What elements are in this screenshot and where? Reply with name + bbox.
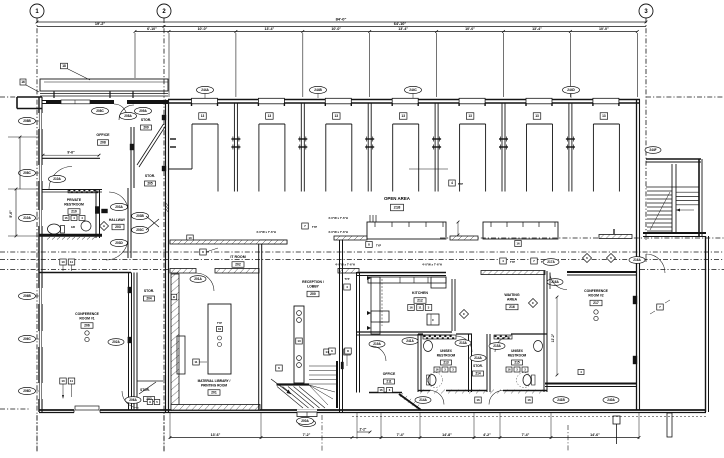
restroom 214-215 wall	[486, 334, 488, 392]
conference rm2 south wall	[545, 383, 636, 385]
left upper dim	[19, 137, 21, 189]
material rm west wall hatched	[171, 274, 179, 410]
svg-text:4'-0"W x 7'-6"H: 4'-0"W x 7'-6"H	[328, 216, 348, 220]
svg-text:244D: 244D	[567, 88, 575, 92]
svg-text:14'-6": 14'-6"	[590, 433, 600, 437]
window tag 244D	[563, 86, 580, 93]
restroom 215 east wall	[543, 271, 545, 392]
hallway north wall stub	[102, 209, 108, 213]
stair enclosure north wall	[646, 158, 701, 160]
svg-text:16: 16	[21, 80, 25, 84]
svg-text:RESTROOM: RESTROOM	[508, 354, 527, 358]
svg-text:13: 13	[201, 114, 205, 118]
match line A upper-right	[646, 96, 724, 98]
cubicle tags 13	[199, 113, 207, 120]
svg-text:ROOM #2: ROOM #2	[588, 294, 603, 298]
canopy roof outline	[40, 79, 168, 91]
door tag 210A oval	[49, 175, 66, 182]
hallway door diamond	[99, 221, 108, 230]
svg-text:217A: 217A	[547, 260, 555, 264]
svg-text:241B: 241B	[557, 398, 565, 402]
restroom 213 tags	[434, 367, 440, 372]
open area leader tag 4	[409, 168, 448, 170]
svg-text:18: 18	[62, 64, 66, 68]
svg-text:7'-4": 7'-4"	[522, 433, 530, 437]
match line D	[0, 259, 724, 261]
svg-text:TYP: TYP	[458, 182, 463, 186]
material rm tag 11	[193, 359, 200, 365]
svg-text:B: B	[173, 295, 175, 299]
reception west wall	[258, 241, 260, 410]
conference rm2 east jambs	[633, 296, 637, 304]
grid line 1	[36, 18, 38, 452]
waiting oval tag	[547, 279, 563, 286]
office 211 door arc	[371, 346, 386, 361]
svg-text:213: 213	[443, 361, 449, 365]
svg-text:10: 10	[188, 236, 192, 240]
svg-text:4'-0"W x 7'-6"H: 4'-0"W x 7'-6"H	[328, 230, 348, 234]
window tag 244A	[197, 86, 214, 93]
svg-text:216A: 216A	[633, 258, 641, 262]
conference rm2 interior dim	[556, 297, 558, 375]
match line B right	[440, 237, 724, 239]
svg-text:205: 205	[147, 182, 153, 186]
conference rm1 ceiling symbols	[85, 331, 89, 335]
material rm island table	[208, 304, 231, 374]
cubicle U partitions	[192, 123, 218, 125]
stair door tag	[299, 419, 316, 426]
conference rm1 east wall	[128, 273, 130, 411]
left vertical dimension line	[15, 189, 17, 236]
svg-text:13: 13	[268, 114, 272, 118]
restroom south walls	[369, 392, 402, 394]
restroom door arc	[49, 167, 72, 190]
svg-text:203: 203	[115, 225, 121, 229]
stor 205 ladder diagonal	[137, 124, 164, 165]
kitchen appliance	[427, 314, 439, 325]
svg-text:KITCHEN: KITCHEN	[412, 291, 428, 295]
corridor table 1	[367, 222, 446, 239]
svg-text:203D: 203D	[115, 241, 123, 245]
lower corridor oval 216A	[629, 257, 645, 264]
svg-text:CONFERENCE: CONFERENCE	[584, 289, 608, 293]
match line E left	[0, 269, 168, 271]
bottom grid dash 2	[163, 415, 165, 452]
svg-text:10: 10	[61, 260, 65, 264]
conference rm1 north wall	[39, 272, 131, 274]
svg-text:209: 209	[143, 126, 149, 130]
material rm side counter	[177, 336, 185, 374]
west wall power pole	[170, 138, 176, 140]
kitchen-waiting divider	[451, 279, 453, 331]
south exterior wall	[39, 409, 706, 411]
svg-text:GFI: GFI	[71, 225, 76, 229]
svg-text:HALLWAY: HALLWAY	[109, 218, 126, 222]
svg-text:PRIVATE: PRIVATE	[67, 198, 82, 202]
annex door arc	[646, 254, 665, 273]
bottom dimension string	[170, 437, 639, 439]
restroom 213 west wall	[417, 334, 419, 392]
svg-text:MATERIAL LIBRARY /: MATERIAL LIBRARY /	[198, 379, 231, 383]
office-stor partition wall	[130, 127, 132, 188]
corridor table 2	[483, 222, 558, 239]
svg-text:13: 13	[335, 114, 339, 118]
west oval leaders	[35, 120, 39, 122]
svg-text:16: 16	[507, 368, 511, 372]
central west wall of open area	[165, 100, 167, 413]
svg-text:208A: 208A	[124, 114, 132, 118]
svg-text:OFFICE: OFFICE	[96, 133, 110, 137]
svg-text:16: 16	[218, 327, 222, 331]
svg-text:5'-6": 5'-6"	[9, 210, 13, 218]
svg-text:203B: 203B	[136, 214, 144, 218]
svg-text:241A: 241A	[406, 339, 414, 343]
svg-text:209A: 209A	[139, 109, 147, 113]
svg-text:16: 16	[527, 398, 531, 402]
svg-text:214A: 214A	[474, 356, 482, 360]
interior stair arrow	[271, 379, 291, 394]
annex downspout 2	[667, 413, 672, 437]
office 211 door tag	[369, 341, 385, 348]
svg-text:240A: 240A	[607, 398, 615, 402]
svg-text:208B: 208B	[23, 119, 31, 123]
svg-text:12'-2": 12'-2"	[551, 333, 555, 342]
stair landing	[646, 186, 699, 188]
svg-text:64'-10": 64'-10"	[394, 22, 407, 26]
svg-text:11: 11	[418, 306, 422, 310]
east exterior wall	[636, 100, 638, 411]
stair stringer	[671, 164, 673, 232]
interior stair fan	[309, 385, 335, 392]
restroom south wall	[39, 234, 102, 237]
svg-text:STOR.: STOR.	[144, 289, 154, 293]
svg-text:201: 201	[211, 391, 217, 395]
svg-text:LOBBY: LOBBY	[307, 285, 320, 289]
lower corridor tag 7 typ	[531, 258, 538, 264]
svg-text:203A: 203A	[115, 205, 123, 209]
interior stair upper treads	[309, 365, 337, 367]
conference rm2 door arc	[550, 273, 567, 290]
svg-text:TYP: TYP	[312, 225, 317, 229]
restroom door arcs	[430, 391, 444, 405]
svg-text:RECEPTION /: RECEPTION /	[302, 280, 324, 284]
annex tag 7	[657, 304, 664, 310]
svg-text:206C: 206C	[23, 337, 31, 341]
grid line 2	[163, 18, 165, 452]
restroom fixture tags	[63, 216, 69, 221]
svg-text:OFFICE: OFFICE	[383, 372, 396, 376]
svg-text:211: 211	[386, 380, 391, 384]
left edge tag	[20, 79, 26, 85]
svg-text:16: 16	[409, 306, 413, 310]
svg-text:13: 13	[297, 339, 301, 343]
svg-text:214A: 214A	[419, 398, 427, 402]
conference rm2 tag	[578, 370, 584, 375]
kitchen south counter	[357, 331, 452, 333]
svg-text:244B: 244B	[314, 88, 322, 92]
hallway door arc south	[106, 238, 128, 260]
it room north wall	[170, 240, 259, 242]
partition power poles	[231, 138, 240, 140]
svg-text:217: 217	[593, 301, 599, 305]
svg-text:4: 4	[451, 181, 453, 185]
svg-text:IT ROOM: IT ROOM	[230, 255, 245, 259]
interior stair winder treads	[277, 387, 303, 409]
svg-text:13: 13	[401, 114, 405, 118]
west wall windows	[38, 113, 43, 129]
svg-text:13'-4": 13'-4"	[532, 27, 542, 31]
hallway east wall	[127, 188, 129, 258]
south corridor tags	[415, 397, 431, 404]
svg-text:206B: 206B	[23, 294, 31, 298]
svg-text:16: 16	[435, 368, 439, 372]
canopy tag 18 with leader	[61, 63, 68, 69]
it room tag 8	[200, 249, 207, 255]
svg-text:13: 13	[535, 114, 539, 118]
svg-text:204: 204	[146, 297, 152, 301]
stor 202 door tag	[108, 339, 124, 346]
svg-text:TYP: TYP	[344, 277, 349, 281]
annex east wall	[705, 236, 707, 412]
stair door tag 244F	[645, 147, 661, 154]
stair upper wall	[277, 383, 310, 385]
south door threshold	[297, 409, 317, 417]
material rm tag B	[171, 294, 177, 300]
material rm south wall hatched	[171, 405, 260, 411]
north wall of open area	[168, 99, 640, 101]
stair diagonal	[650, 192, 670, 230]
svg-text:C: C	[432, 318, 434, 322]
svg-text:TYP: TYP	[217, 321, 222, 325]
svg-text:11: 11	[70, 379, 74, 383]
reception east wall	[339, 236, 341, 412]
svg-text:10'-0": 10'-0"	[599, 27, 609, 31]
reception tags	[324, 349, 331, 355]
svg-text:10'-0": 10'-0"	[331, 27, 341, 31]
svg-text:TYP: TYP	[510, 260, 515, 264]
grid line 3	[645, 18, 647, 240]
svg-text:STOR.: STOR.	[145, 174, 155, 178]
svg-text:4'-0"W x 7'-6"H: 4'-0"W x 7'-6"H	[256, 230, 276, 234]
match line A upper-left	[0, 96, 18, 98]
svg-text:10: 10	[61, 379, 65, 383]
conference rm2 ceiling symbols	[594, 310, 598, 314]
match line E right	[640, 269, 724, 271]
restroom 213-214 wall	[468, 334, 470, 392]
svg-text:4'-2": 4'-2"	[483, 433, 491, 437]
svg-text:RESTROOM: RESTROOM	[437, 354, 456, 358]
svg-text:2'-2": 2'-2"	[360, 428, 367, 432]
svg-text:UNISEX: UNISEX	[440, 349, 453, 353]
svg-text:215: 215	[514, 361, 520, 365]
corridor counter west hatched	[170, 240, 287, 244]
restroom 213 lav	[424, 341, 433, 352]
svg-text:14'-8": 14'-8"	[442, 433, 452, 437]
material rm door arc	[196, 273, 214, 291]
storefront window	[61, 100, 90, 104]
svg-text:218: 218	[394, 205, 401, 210]
svg-text:STOR.: STOR.	[140, 388, 150, 392]
stor 202 divider and door	[137, 380, 166, 382]
match line F bottom-left	[0, 408, 30, 410]
svg-text:200: 200	[310, 292, 316, 296]
stor door arc	[119, 105, 134, 120]
reception desk symbols	[297, 311, 302, 316]
svg-text:TYP: TYP	[376, 244, 381, 248]
waiting diamond tag	[459, 309, 468, 318]
annex downspout 1	[613, 416, 620, 424]
restroom east wall	[95, 190, 97, 239]
svg-text:13: 13	[602, 114, 606, 118]
it room south wall hatched	[170, 269, 196, 274]
reception north counter hatch	[260, 240, 287, 244]
corridor counter right hatched	[599, 235, 632, 239]
restroom 215 toilet	[523, 375, 531, 386]
south wall door opening conference rm	[74, 408, 100, 415]
sidewalk edge below canopy	[40, 93, 168, 95]
stor 204 strip west wall	[133, 273, 135, 411]
svg-text:RESTROOM: RESTROOM	[64, 203, 84, 207]
svg-text:4'-0"W x 7'-6"H: 4'-0"W x 7'-6"H	[422, 263, 442, 267]
restroom 215 tags	[506, 367, 512, 372]
svg-text:PRINTING ROOM: PRINTING ROOM	[201, 384, 227, 388]
office 208 dim 9'-6"	[43, 154, 99, 156]
grid bubble 2	[157, 4, 171, 18]
svg-text:11: 11	[70, 260, 74, 264]
restroom north door arcs	[456, 336, 472, 352]
svg-text:214: 214	[475, 372, 481, 376]
corridor table 1 marks	[369, 215, 371, 222]
svg-text:219A: 219A	[373, 342, 381, 346]
lower corridor counter 2	[481, 271, 545, 275]
svg-text:13'-4": 13'-4"	[264, 27, 274, 31]
west exterior wall	[38, 97, 40, 412]
svg-text:CONFERENCE: CONFERENCE	[75, 312, 99, 316]
svg-text:213A: 213A	[459, 341, 467, 345]
stair flight east treads	[676, 191, 699, 193]
svg-text:7'-2": 7'-2"	[303, 433, 311, 437]
svg-text:212: 212	[417, 299, 423, 303]
bottom dash x568	[567, 425, 569, 452]
reception desk	[294, 306, 304, 383]
svg-text:201A: 201A	[194, 277, 202, 281]
bottom grid dash 1	[36, 415, 38, 452]
west wall window tags	[19, 117, 36, 124]
svg-text:208C: 208C	[23, 171, 31, 175]
svg-text:16: 16	[64, 216, 68, 220]
lower corridor tag 2 typ	[500, 258, 507, 264]
svg-text:11: 11	[194, 360, 198, 364]
bottom small dim 2'-2"	[357, 431, 370, 433]
svg-text:200A: 200A	[301, 419, 309, 423]
corridor counter mid hatched	[334, 236, 367, 240]
svg-text:216A: 216A	[551, 280, 559, 284]
conference rm2 door tag	[543, 259, 559, 266]
window tag 244C	[405, 86, 422, 93]
kitchen west wall	[356, 272, 358, 393]
restroom door tags	[455, 340, 471, 347]
svg-text:10'-0": 10'-0"	[465, 27, 475, 31]
entry vestibule bump-out	[17, 96, 42, 98]
svg-text:STOR.: STOR.	[141, 118, 151, 122]
svg-text:6'-10": 6'-10"	[147, 27, 157, 31]
svg-text:13'-4": 13'-4"	[398, 27, 408, 31]
svg-text:16: 16	[476, 398, 480, 402]
stair flight west treads	[647, 190, 672, 192]
hallway door tags	[111, 203, 128, 210]
svg-text:UNISEX: UNISEX	[511, 349, 524, 353]
svg-text:210: 210	[71, 210, 77, 214]
svg-text:208C: 208C	[96, 109, 104, 113]
svg-text:208: 208	[100, 141, 106, 145]
private restroom north wall	[42, 189, 102, 191]
svg-text:244F: 244F	[649, 148, 656, 152]
svg-text:84'-0": 84'-0"	[336, 17, 347, 22]
svg-text:16: 16	[379, 388, 383, 392]
restrooms north tile band	[423, 335, 456, 339]
cubicle bay boundary partitions	[233, 103, 235, 192]
svg-text:16: 16	[516, 242, 520, 246]
svg-text:216: 216	[509, 305, 515, 309]
stair arrow	[676, 209, 694, 211]
bottom oval 200A	[297, 417, 314, 424]
svg-text:9'-6": 9'-6"	[67, 151, 75, 155]
wall hatch marks	[166, 203, 168, 206]
top dimension line 84'-0" and 19'-2"/64'-10"	[37, 21, 646, 23]
svg-text:13: 13	[468, 114, 472, 118]
svg-text:4'-0"W x 7'-6"H: 4'-0"W x 7'-6"H	[335, 263, 355, 267]
north wall of office block (storefront)	[42, 100, 168, 102]
corridor tag 7 typ	[302, 223, 309, 229]
restroom 215 lav	[534, 341, 543, 352]
hallway door leaf diagonals	[146, 216, 159, 227]
grid bubble 3	[639, 4, 653, 18]
corridor tag 8 typ	[366, 242, 373, 248]
office 211 tags	[378, 388, 384, 393]
lower corridor diamonds	[582, 253, 591, 262]
entry door arc office	[114, 104, 127, 117]
restroom tile band	[68, 190, 98, 193]
top dimension line bay segments	[135, 31, 637, 33]
conference rm1 door tag bottom	[125, 397, 141, 404]
grid bubble 1	[30, 4, 44, 18]
storefront door opening	[114, 99, 127, 104]
svg-text:206D: 206D	[23, 389, 31, 393]
svg-text:202A: 202A	[112, 340, 120, 344]
it room tag 10	[187, 235, 194, 241]
conference rm1 tags upper	[60, 259, 67, 265]
svg-text:244C: 244C	[409, 88, 417, 92]
svg-text:13'-6": 13'-6"	[211, 433, 221, 437]
hallway door arc north	[109, 192, 128, 211]
svg-text:7'-4": 7'-4"	[397, 433, 405, 437]
north wall windows	[192, 98, 218, 104]
svg-text:WAITING: WAITING	[504, 293, 520, 297]
office door tags	[92, 107, 109, 114]
match line C	[0, 251, 724, 253]
kitchen top counter	[368, 277, 446, 283]
corridor counter east hatched	[450, 236, 478, 240]
window tag 244B	[310, 86, 327, 93]
restroom 213 toilet	[428, 375, 436, 386]
stor 214 oval	[470, 355, 486, 362]
svg-text:OPEN AREA: OPEN AREA	[384, 196, 411, 201]
svg-text:206A: 206A	[129, 398, 137, 402]
stair enclosure east wall	[698, 159, 700, 236]
svg-text:ROOM #1: ROOM #1	[79, 317, 94, 321]
svg-text:210A: 210A	[23, 216, 31, 220]
svg-text:215A: 215A	[493, 344, 501, 348]
